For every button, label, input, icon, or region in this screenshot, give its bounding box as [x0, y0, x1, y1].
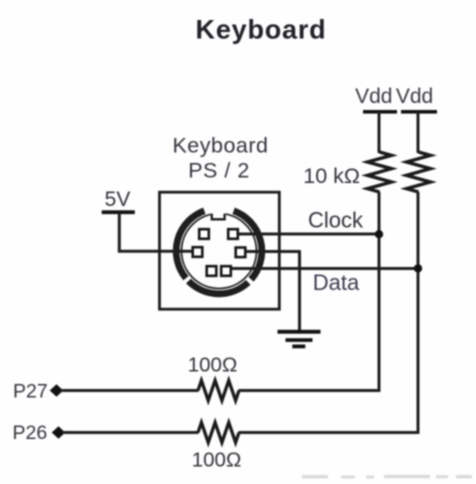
- faint cropped caption text at bottom edge: [302, 475, 472, 479]
- wire: R4 to data rail: [239, 431, 420, 434]
- junction: data/rail: [414, 264, 422, 272]
- resistor R3 (clock series): [198, 381, 239, 401]
- mini-DIN shield ring (thick arcs): [176, 211, 262, 294]
- svg-text:Vdd: Vdd: [355, 85, 392, 108]
- mini-DIN inner circle: [182, 214, 257, 289]
- ground symbol: [278, 330, 321, 349]
- svg-text:P26: P26: [13, 422, 48, 444]
- svg-text:100Ω: 100Ω: [192, 449, 242, 472]
- Vdd bar symbol (right): [401, 110, 437, 114]
- wire: 5V to pin (left): [118, 250, 194, 253]
- wire: P27 to resistor R3: [60, 389, 199, 392]
- pin 2 (mid-left): [193, 247, 203, 257]
- pin 6 (bottom-left): [207, 266, 217, 276]
- pin 4 (top-left): [199, 229, 209, 239]
- connector J1 outline box: [160, 192, 280, 309]
- svg-text:5V: 5V: [105, 188, 131, 211]
- svg-text:Keyboard: Keyboard: [172, 134, 268, 158]
- wire: clock pin to rail: [238, 233, 381, 236]
- svg-text:Clock: Clock: [308, 208, 364, 233]
- svg-text:Keyboard: Keyboard: [196, 15, 327, 45]
- wire: P26 to resistor R4: [62, 431, 199, 434]
- resistor R2 (right pull-up): [407, 112, 431, 193]
- keyway notch (top): [211, 212, 226, 220]
- pin 3 gnd (mid-right): [236, 248, 246, 258]
- node P26 (diamond): [52, 426, 66, 438]
- junction: clock/rail: [375, 230, 383, 238]
- svg-text:Vdd: Vdd: [396, 85, 433, 108]
- svg-text:P27: P27: [13, 381, 48, 403]
- wire: ground pin to ground symbol: [246, 252, 301, 331]
- resistor R4 (data series): [198, 423, 239, 443]
- Vdd bar symbol (left): [363, 110, 397, 114]
- pin 1 data (bottom-right): [221, 266, 231, 276]
- svg-text:PS / 2: PS / 2: [188, 159, 250, 183]
- svg-text:100Ω: 100Ω: [188, 354, 238, 377]
- 5V supply bar symbol: [102, 210, 135, 252]
- resistor R1 (left pull-up): [368, 112, 392, 193]
- wire: clock rail down to P27 net: [378, 192, 381, 392]
- svg-text:10 kΩ: 10 kΩ: [303, 164, 360, 188]
- node P27 (diamond): [50, 384, 64, 396]
- wire: R3 to clock rail: [239, 389, 381, 392]
- label: Keyboard PS / 2 (connector name): [172, 134, 268, 183]
- svg-text:Data: Data: [313, 270, 360, 295]
- wire: data pin to rail: [231, 267, 420, 270]
- pin 5 clock (top-right): [228, 229, 238, 239]
- wire: data rail down to P26 net: [417, 192, 420, 434]
